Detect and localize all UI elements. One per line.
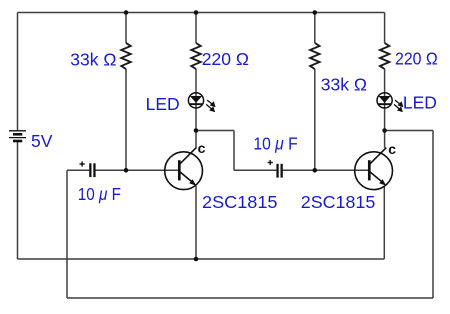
resistor R1 33k left zigzag xyxy=(121,43,130,69)
wire Q1 base line left of C1 xyxy=(67,169,89,171)
node Q2 collector xyxy=(382,128,387,133)
wire 33k left branch upper xyxy=(125,13,127,44)
battery B1 5V xyxy=(9,131,26,141)
wire 220 right branch upper xyxy=(384,13,386,44)
svg-text:LED: LED xyxy=(403,92,437,112)
resistor R2 220 left zigzag xyxy=(191,43,200,69)
wire 220 left branch upper xyxy=(195,13,197,44)
node Q2 base / 33k right xyxy=(313,168,318,173)
svg-text:10 μ F: 10 μ F xyxy=(78,184,121,204)
node top rail / 220 left xyxy=(194,10,199,15)
node top rail / 33k left xyxy=(124,10,129,15)
wire Q1 base line right of C1 xyxy=(96,169,180,171)
wire left rail upper xyxy=(17,13,19,131)
svg-text:c: c xyxy=(388,141,396,157)
svg-text:220 Ω: 220 Ω xyxy=(202,49,249,69)
svg-text:10 μ F: 10 μ F xyxy=(253,134,297,154)
wire Q2 collector stub xyxy=(384,131,386,148)
svg-text:c: c xyxy=(198,140,206,156)
svg-text:33k Ω: 33k Ω xyxy=(70,49,116,69)
wire Q1 collector stub xyxy=(195,131,197,148)
node junction dots xyxy=(124,10,387,261)
wire top rail xyxy=(18,12,385,14)
wire left feedback vertical xyxy=(66,170,68,298)
wire Q1 collector to C2 horizontal xyxy=(196,130,234,132)
capacitor C2 10uF right xyxy=(268,160,283,178)
wire 33k right branch lower xyxy=(314,69,316,170)
svg-text:5V: 5V xyxy=(31,131,53,151)
capacitor C1 10uF left xyxy=(80,161,96,177)
wire C2 drop vertical xyxy=(233,131,235,171)
wire 33k right branch upper xyxy=(314,13,316,44)
wire right outer vertical xyxy=(432,131,434,299)
wire 220 left branch lower xyxy=(195,69,197,131)
wire ground rail xyxy=(18,258,385,260)
node top rail / 33k right xyxy=(313,10,318,15)
resistor R4 220 right zigzag xyxy=(380,43,389,69)
node Q1 base / 33k left xyxy=(124,168,129,173)
wire Q2 emitter riser xyxy=(383,186,385,259)
svg-text:33k Ω: 33k Ω xyxy=(321,75,367,95)
wire C2 line right of plates xyxy=(283,169,315,171)
wire left rail lower xyxy=(17,142,19,260)
svg-text:2SC1815: 2SC1815 xyxy=(301,192,376,212)
wire C2 line left of plates xyxy=(234,169,276,171)
svg-text:220 Ω: 220 Ω xyxy=(395,49,438,69)
node Q1 collector xyxy=(194,128,199,133)
wire bottom return rail xyxy=(67,297,433,299)
node Q1 emitter / ground rail xyxy=(194,257,199,262)
svg-text:2SC1815: 2SC1815 xyxy=(202,192,278,212)
LED D1 left xyxy=(188,93,214,111)
LED D2 right xyxy=(377,93,402,111)
resistor R3 33k right zigzag xyxy=(310,43,319,69)
wire Q1 emitter drop xyxy=(195,186,197,259)
transistor Q2 2SC1815 xyxy=(355,148,393,190)
wire 220 right branch lower xyxy=(384,69,386,131)
wire Q2 collector to outer loop xyxy=(385,130,434,132)
wire 33k left branch lower xyxy=(125,69,127,170)
wire Q2 base line xyxy=(315,169,369,171)
transistor Q1 2SC1815 xyxy=(165,148,203,190)
svg-text:LED: LED xyxy=(146,94,180,114)
